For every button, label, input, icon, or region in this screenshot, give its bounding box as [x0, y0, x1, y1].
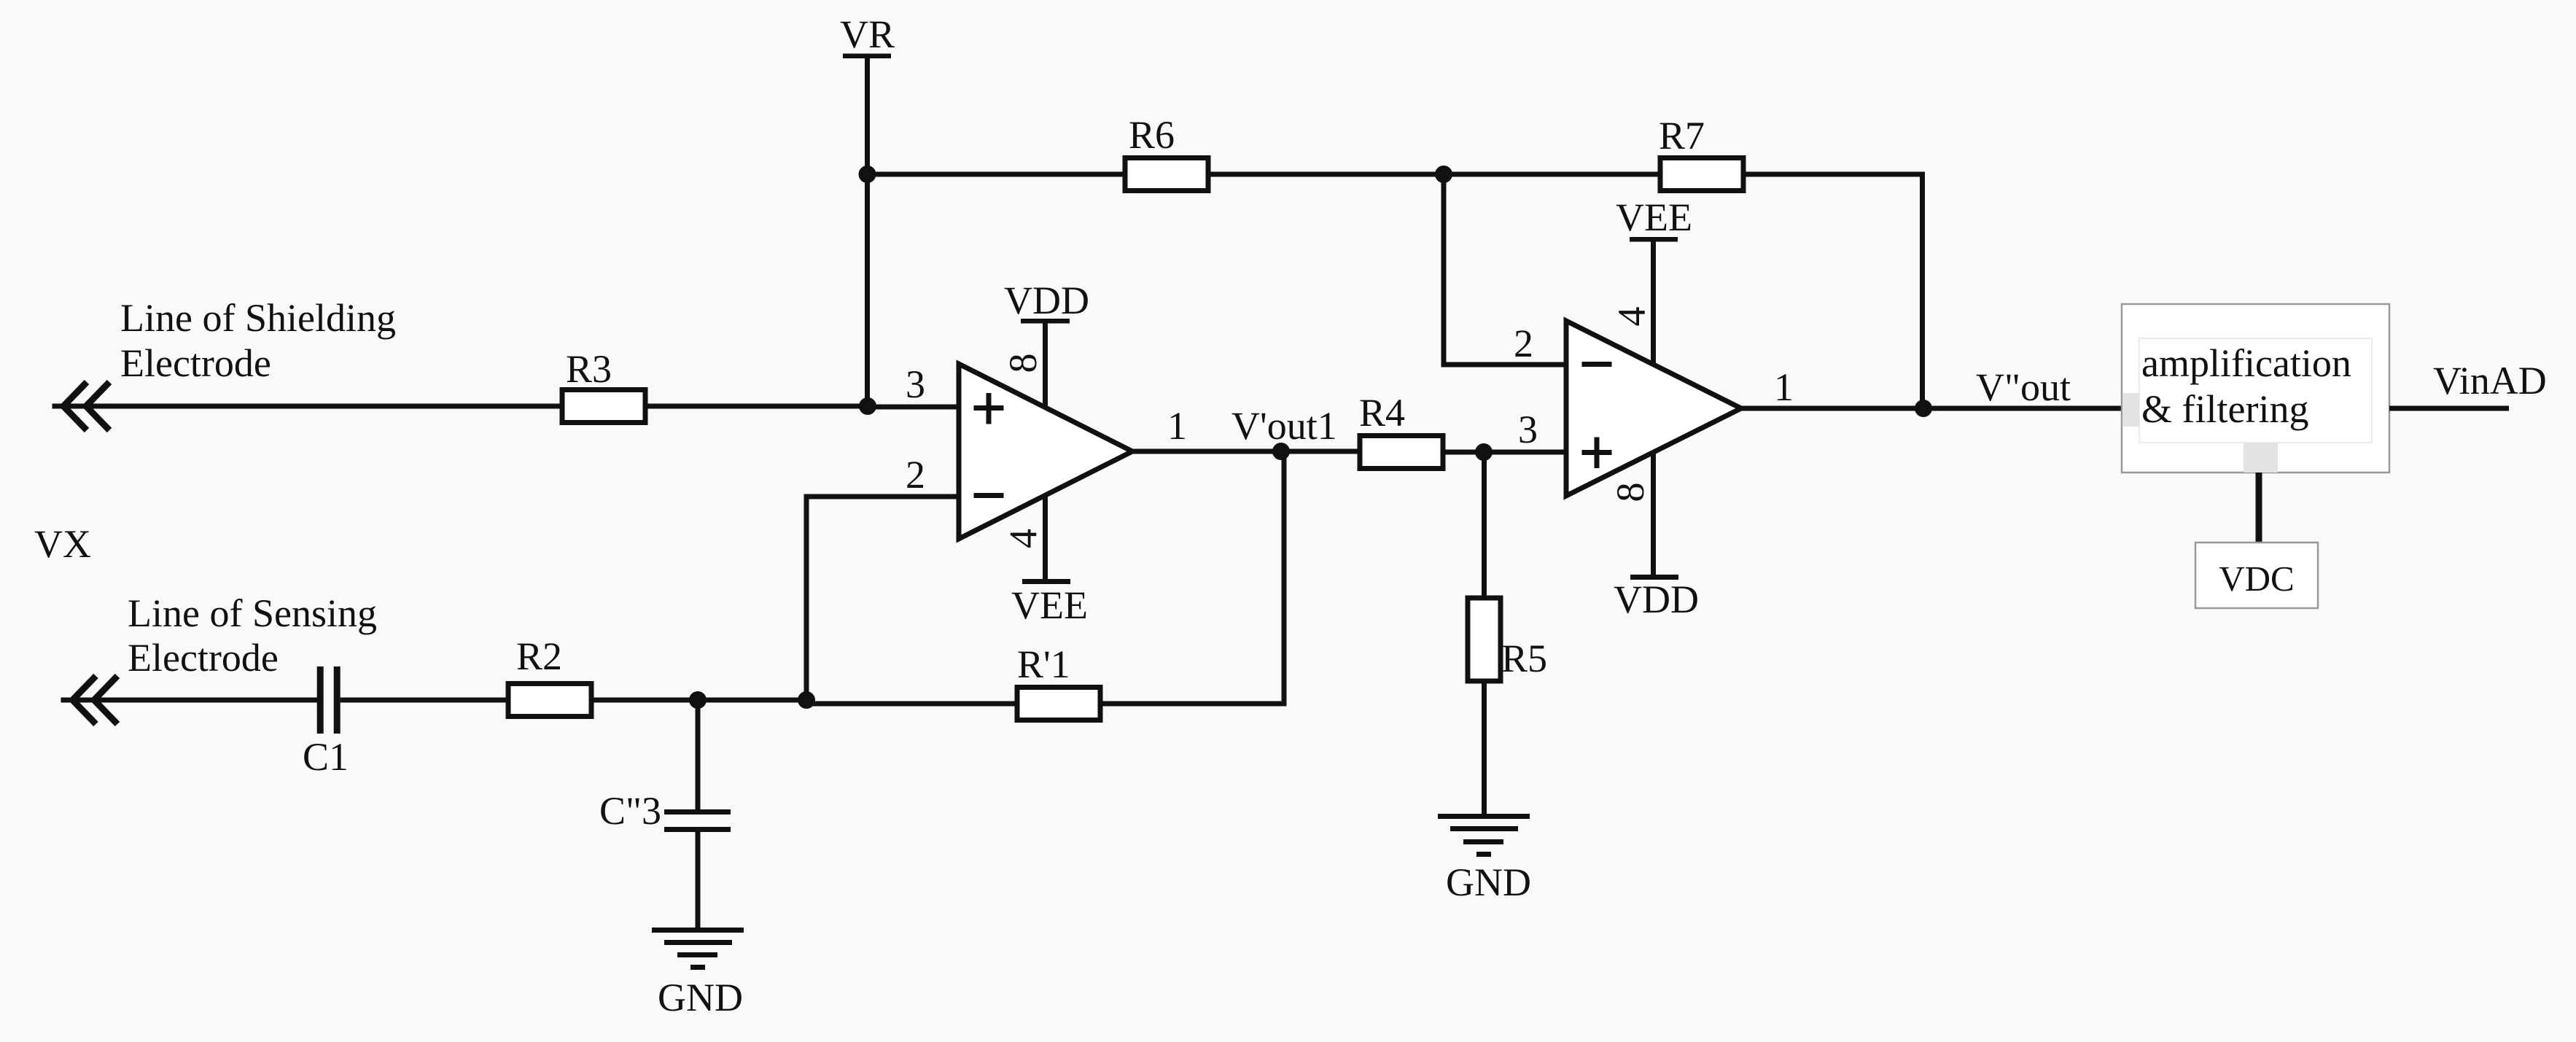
- wire node C to U1 pin 3: [868, 405, 959, 410]
- wire VinAD: [2389, 406, 2509, 411]
- svg-text:4: 4: [1610, 307, 1654, 327]
- svg-text:VEE: VEE: [1616, 195, 1692, 239]
- svg-text:1: 1: [1167, 404, 1187, 448]
- wire to U2 pin 2: [1441, 362, 1567, 368]
- VR terminal bar: [843, 54, 891, 59]
- wire C1 to R2: [341, 698, 510, 703]
- wire amplification box to VDC: [2256, 473, 2262, 543]
- wire VR down to top bus node: [865, 58, 870, 176]
- U1 plus symbol: [974, 405, 1004, 411]
- wire U1 pin 8 to VDD: [1043, 323, 1048, 408]
- wire riser up to V'out1 node: [1282, 451, 1287, 707]
- wire pin2 riser down to sensing node: [804, 494, 809, 701]
- svg-text:1: 1: [1774, 365, 1794, 409]
- wire sensing line to C1: [73, 698, 318, 703]
- op-amp U2 body: [1566, 321, 1741, 496]
- U2 minus symbol: [1582, 362, 1612, 367]
- capacitor C"3 top plate: [664, 809, 731, 814]
- wire R4 to node G: [1443, 450, 1486, 455]
- resistor R6: [1125, 158, 1208, 191]
- capacitor C1 left plate: [317, 666, 324, 734]
- svg-text:GND: GND: [1446, 860, 1531, 904]
- wire R3 to node C: [645, 404, 870, 409]
- wire U1 pin 4 to VEE: [1043, 496, 1048, 579]
- svg-text:3: 3: [1518, 408, 1538, 451]
- capacitor C"3 bottom plate: [664, 827, 731, 832]
- svg-text:Electrode: Electrode: [120, 341, 271, 385]
- VEE terminal bar (U1): [1022, 579, 1070, 584]
- resistor R7: [1660, 158, 1743, 191]
- wire top bus: node B to R7: [1444, 172, 1662, 177]
- connection pad (left): [2122, 393, 2139, 427]
- svg-text:& filtering: & filtering: [2141, 387, 2308, 431]
- svg-text:C"3: C"3: [599, 789, 661, 833]
- node B (R6 / R7 / op-amp U2 pin2 junction): [1435, 166, 1452, 183]
- wire node G down to R5: [1482, 452, 1487, 600]
- resistor R5: [1468, 598, 1501, 681]
- wire U2 pin 4 to VEE: [1651, 241, 1656, 365]
- svg-text:2: 2: [1514, 322, 1533, 365]
- U2 plus symbol: [1582, 450, 1612, 455]
- svg-text:amplification: amplification: [2141, 341, 2351, 385]
- svg-text:VinAD: VinAD: [2433, 359, 2547, 403]
- arrow chevron 2 (sensing input): [94, 676, 117, 724]
- VDC box: [2195, 543, 2318, 608]
- svg-text:VDD: VDD: [1004, 279, 1089, 322]
- svg-text:R'1: R'1: [1017, 642, 1070, 686]
- svg-text:8: 8: [1001, 354, 1045, 373]
- resistor R2: [508, 684, 591, 717]
- wire R7 to corner: [1743, 172, 1925, 177]
- svg-text:VDD: VDD: [1614, 578, 1699, 621]
- wire sensing line stub: [61, 698, 75, 703]
- text area highlight: [2139, 338, 2372, 443]
- svg-text:VR: VR: [840, 12, 895, 56]
- svg-text:2: 2: [906, 453, 925, 497]
- amplification &amp; filtering box: [2122, 304, 2389, 473]
- wire C"3 to ground: [696, 832, 701, 930]
- wire R2 to node D: [591, 698, 700, 703]
- svg-text:R7: R7: [1659, 114, 1705, 158]
- VDD terminal bar (U1): [1021, 319, 1070, 324]
- wire node A down to shielding line: [865, 174, 870, 408]
- wire node B down: [1441, 174, 1447, 367]
- node G (R4 / R5 junction): [1475, 443, 1493, 461]
- ground symbol (under R5): [1438, 814, 1530, 819]
- U1 minus symbol: [974, 493, 1004, 498]
- wire U1 output: [1132, 449, 1362, 454]
- svg-text:V'out1: V'out1: [1231, 404, 1337, 448]
- svg-text:R4: R4: [1359, 391, 1405, 435]
- wire node E to R'1: [806, 701, 1019, 707]
- wire node G to U2 pin 3: [1484, 450, 1566, 455]
- resistor R3: [562, 390, 645, 423]
- wire R5 to ground: [1482, 681, 1487, 816]
- wire U2 pin 8 to VDD: [1651, 452, 1656, 575]
- node F (V'out1): [1272, 443, 1290, 460]
- svg-text:GND: GND: [658, 976, 743, 1019]
- svg-text:Line of Shielding: Line of Shielding: [120, 296, 396, 340]
- ground symbol (under C"3): [652, 928, 744, 933]
- node D (sensing / C&quot;3 junction): [689, 691, 707, 709]
- svg-text:8: 8: [1608, 483, 1652, 502]
- svg-text:Electrode: Electrode: [128, 636, 279, 680]
- arrow chevron 2 (shielding input): [86, 382, 109, 430]
- svg-text:V"out: V"out: [1976, 365, 2071, 409]
- svg-text:C1: C1: [303, 735, 349, 779]
- svg-text:R6: R6: [1129, 113, 1175, 157]
- node H (V"out): [1915, 400, 1932, 417]
- resistor R4: [1360, 436, 1443, 469]
- VEE terminal bar (U2): [1630, 237, 1678, 242]
- wire shielding line to R3: [63, 404, 564, 409]
- wire node D to node E: [698, 698, 809, 703]
- wire node D down to C"3: [696, 700, 701, 809]
- node A (VR / R6 junction): [859, 166, 876, 183]
- wire R'1 to riser: [1100, 701, 1284, 707]
- wire U2 output to amplification box: [1741, 406, 2122, 411]
- arrow chevron 1 (sensing input): [73, 676, 96, 724]
- svg-text:3: 3: [906, 362, 925, 406]
- wire down to output node: [1920, 172, 1925, 408]
- svg-text:Line of Sensing: Line of Sensing: [128, 591, 377, 635]
- node E (sensing / pin2 riser / R'1 junction): [798, 691, 815, 709]
- svg-text:R5: R5: [1501, 637, 1547, 680]
- node C (shielding / VR riser junction): [859, 397, 876, 415]
- VDD terminal bar (U2): [1630, 575, 1678, 580]
- connection pad (bottom): [2244, 443, 2278, 473]
- op-amp U1 body: [959, 364, 1132, 539]
- wire top bus: node A to R6: [865, 172, 1127, 177]
- svg-text:VX: VX: [34, 522, 91, 566]
- resistor R'1: [1017, 688, 1100, 720]
- svg-text:R2: R2: [516, 634, 562, 678]
- svg-text:VDC: VDC: [2219, 559, 2294, 599]
- svg-text:R3: R3: [566, 347, 612, 391]
- capacitor C1 right plate: [334, 666, 341, 734]
- wire top bus: R6 to node B: [1208, 172, 1446, 177]
- svg-text:VEE: VEE: [1011, 583, 1088, 627]
- wire shielding line stub: [52, 404, 66, 409]
- wire U1 pin 2: [806, 494, 959, 499]
- svg-text:4: 4: [1002, 529, 1046, 548]
- arrow chevron 1 (shielding input): [63, 382, 87, 430]
